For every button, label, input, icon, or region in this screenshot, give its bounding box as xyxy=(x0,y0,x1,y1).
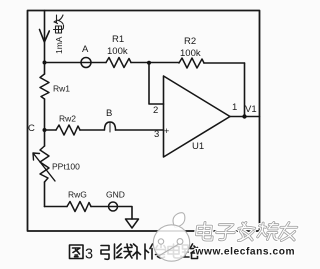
wire GND to ground xyxy=(118,207,133,220)
watermark stamp icon xyxy=(153,213,189,262)
偿 xyxy=(150,244,166,259)
svg-text:PPt100: PPt100 xyxy=(52,162,80,172)
svg-text:C: C xyxy=(28,123,35,134)
wire: feedback vertical to output xyxy=(244,63,246,117)
svg-text:www.elecfans.com: www.elecfans.com xyxy=(195,247,296,258)
node: junction of source and top wire xyxy=(43,61,47,65)
路 xyxy=(182,244,198,259)
border frame xyxy=(28,11,260,232)
node C xyxy=(43,128,47,132)
wire R1 to junction xyxy=(131,62,179,64)
wire Rw2 to B xyxy=(80,129,104,131)
current direction arrow xyxy=(40,30,50,42)
terminal A xyxy=(81,58,91,68)
wire R2 to feedback corner xyxy=(204,62,245,64)
svg-text:2: 2 xyxy=(153,105,158,116)
电 xyxy=(168,244,181,258)
svg-text:1mA: 1mA xyxy=(54,36,64,54)
wire A to R1 xyxy=(91,62,106,64)
svg-text:1: 1 xyxy=(232,102,237,113)
svg-text:R1: R1 xyxy=(112,34,124,45)
svg-text:R2: R2 xyxy=(184,36,196,47)
svg-text:100k: 100k xyxy=(180,48,201,59)
wire RwG to GND terminal xyxy=(91,206,109,208)
线 xyxy=(117,244,133,258)
resistor Rw2 xyxy=(45,129,57,131)
op-amp U1 xyxy=(164,76,231,157)
terminal B (arc) xyxy=(105,122,116,130)
label 电流 (rotated, drawn strokes) xyxy=(54,15,64,33)
node V1 xyxy=(242,114,246,118)
svg-text:A: A xyxy=(82,44,89,55)
svg-text:GND: GND xyxy=(106,190,125,200)
resistor RwG xyxy=(67,202,91,212)
wire: output xyxy=(230,116,260,118)
svg-text:U1: U1 xyxy=(192,141,204,152)
resistor R2 xyxy=(179,58,204,68)
svg-text:100k: 100k xyxy=(107,46,128,57)
svg-text:3: 3 xyxy=(85,247,93,263)
引 xyxy=(101,244,115,259)
resistor Rw1 (vertical) xyxy=(40,74,49,99)
svg-text:+: + xyxy=(164,126,169,136)
svg-text:Rw2: Rw2 xyxy=(59,114,76,124)
caption 图3 引线补偿电路 (drawn strokes) xyxy=(70,244,199,263)
node: R1/R2/pin2 junction xyxy=(147,61,151,65)
terminal GND xyxy=(109,202,118,211)
wire: top horizontal to terminal A xyxy=(45,62,82,64)
arrow of PPt100 xyxy=(33,153,55,181)
resistor R1 xyxy=(106,58,131,68)
resistor PPt100 (vertical, variable) xyxy=(40,146,49,182)
svg-text:V1: V1 xyxy=(245,104,257,115)
wire: junction down to pin 2 xyxy=(149,63,164,104)
svg-text:RwG: RwG xyxy=(68,190,87,200)
wire: current source drop from top border xyxy=(44,11,46,63)
wire B to pin 3 xyxy=(116,129,164,131)
wire bottom left xyxy=(45,206,68,208)
ground symbol xyxy=(126,219,139,228)
svg-text:B: B xyxy=(106,108,112,119)
图 xyxy=(70,245,84,259)
补 xyxy=(133,244,149,259)
svg-text:Rw1: Rw1 xyxy=(53,84,70,94)
